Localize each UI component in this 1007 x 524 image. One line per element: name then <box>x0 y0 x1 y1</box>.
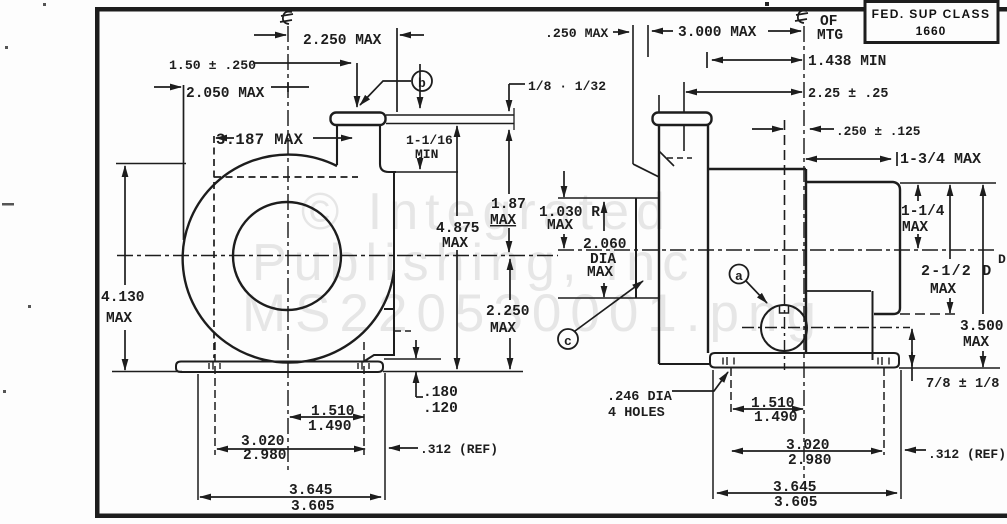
left view: centerline symbol <box>280 12 293 24</box>
left view dimension texts <box>101 33 606 515</box>
svg-text:3.020: 3.020 <box>786 438 830 454</box>
svg-text:.120: .120 <box>423 401 458 417</box>
dim 3.187 MAX: right arrow <box>313 137 352 139</box>
dim 1.030 R: upper down arrow <box>563 171 565 197</box>
left view: base top extension right <box>384 358 441 360</box>
left view: base hole mark right <box>358 363 369 370</box>
left view: outlet step to flat face <box>363 173 394 362</box>
svg-text:MAX: MAX <box>963 335 989 351</box>
svg-text:1.490: 1.490 <box>754 410 798 426</box>
svg-text:MAX: MAX <box>902 220 928 236</box>
svg-text:MTG: MTG <box>817 28 843 44</box>
drawing border bottom <box>95 514 1007 519</box>
right view: body left wall <box>658 125 660 364</box>
dim 7/8: vertical and arrows <box>911 329 913 340</box>
stray scan marks <box>2 2 769 393</box>
dim .312 left view arrow <box>389 447 418 449</box>
dim 1.510 right view <box>733 408 803 410</box>
left view: mounting base bar <box>176 362 383 373</box>
left view: base hole mark left <box>209 363 220 370</box>
dim 4.875: down arrow at base <box>456 250 458 369</box>
left view: inlet circle <box>233 202 341 310</box>
dim 2.250 MAX top: right arrow at face line <box>400 34 424 36</box>
dim 3.000 MAX arrows <box>652 30 673 32</box>
dim 1-3/4: arrows <box>806 158 891 160</box>
svg-text:FED. SUP CLASS: FED. SUP CLASS <box>872 7 991 21</box>
svg-text:MAX: MAX <box>490 213 516 229</box>
dim .250 MAX arrow <box>613 31 629 33</box>
left view: base end extension verticals <box>198 373 385 500</box>
right view: keyway notch <box>780 306 789 313</box>
right view: inlet cylinder face <box>635 198 637 298</box>
dim 1/8: lower up arrow <box>508 130 510 148</box>
svg-text:.180: .180 <box>423 385 458 401</box>
right view: inlet cylinder bottom edge with extension <box>558 297 659 299</box>
right view: duct inner dash <box>667 157 692 159</box>
dim 3.020 right view <box>732 450 882 452</box>
dim 2.250 right: up arrow below centerline <box>509 259 511 300</box>
balloon c <box>558 329 578 349</box>
svg-text:MAX: MAX <box>490 321 516 337</box>
svg-text:MAX: MAX <box>930 282 956 298</box>
right view: chamfer at inlet edge <box>633 164 659 177</box>
dim .180: lower up arrow and elbow <box>415 372 417 397</box>
right view: base hole mark right <box>878 357 889 365</box>
right view: extension verticals above duct <box>633 25 684 164</box>
dim 4.130: up arrow <box>124 166 126 285</box>
svg-text:1-1/16: 1-1/16 <box>406 133 453 148</box>
dim 3.187 MAX: left arrow at hidden line <box>216 137 234 139</box>
svg-text:2.980: 2.980 <box>243 448 287 464</box>
svg-text:3.000 MAX: 3.000 MAX <box>678 25 757 41</box>
dim 2.050 MAX: scroll edge extension vertical <box>183 85 185 240</box>
svg-text:2.250: 2.250 <box>486 304 530 320</box>
left view: duct flange capsule <box>331 113 386 126</box>
svg-text:MS220530001.png: MS220530001.png <box>242 284 825 343</box>
svg-text:3.605: 3.605 <box>291 499 335 515</box>
dim .250/.125: left arrow <box>752 128 783 130</box>
right view dimension texts <box>539 14 1006 511</box>
left view: scroll housing outer outline <box>183 155 394 363</box>
right view: duct right wall <box>707 125 709 353</box>
balloon b <box>412 71 432 91</box>
svg-text:© Integrated: © Integrated <box>301 183 672 241</box>
dim 2.050 MAX: arrow to scroll edge <box>154 86 181 88</box>
dim 3.645 left view <box>200 496 381 498</box>
left view: vertical centerline <box>287 26 289 472</box>
left view: hidden line horizontal <box>214 176 358 178</box>
dim 1/8 leader elbow <box>509 83 525 85</box>
right view: motor circle horizontal centerline <box>742 327 910 329</box>
dim 1.030 R: down arrow at centerline <box>563 234 565 248</box>
dim .246 leader <box>672 372 728 391</box>
svg-text:2.050 MAX: 2.050 MAX <box>186 86 265 102</box>
left view: duct step extension line <box>396 171 458 173</box>
right view: duct seam <box>683 126 685 151</box>
dim 2.250 right: down arrow at base <box>509 338 511 369</box>
right view: base bottom extension <box>899 367 1000 369</box>
svg-text:1.50 ± .250: 1.50 ± .250 <box>169 58 256 73</box>
right view: bracket vertical <box>872 291 874 360</box>
right view: bracket top edge <box>806 290 871 292</box>
left view: hole centerline extensions <box>215 342 364 455</box>
drawing border left <box>95 7 100 518</box>
balloon b leader <box>360 81 411 105</box>
left view: hidden line vertical <box>213 136 215 358</box>
left view: base bottom extension left <box>112 371 182 373</box>
right view: motor top extension <box>900 182 996 184</box>
dim 2.060: down arrow at cylinder bottom <box>603 283 605 297</box>
dim 1.50 leader line <box>253 62 351 64</box>
svg-text:MAX: MAX <box>106 311 132 327</box>
left view: flange top extension line <box>386 114 514 116</box>
dim 3.020 left view <box>217 448 365 450</box>
right view: body right face <box>805 169 807 353</box>
dim 3.645 right view <box>717 492 897 494</box>
dim 2.250 MAX top: left arrow to centerline <box>254 34 286 36</box>
svg-text:2.250 MAX: 2.250 MAX <box>303 33 382 49</box>
dim 4.875: up arrow at flange <box>456 126 458 216</box>
left view: base bottom extension right <box>383 371 523 373</box>
dim .180: upper down arrow <box>415 340 417 358</box>
svg-text:1.510: 1.510 <box>311 404 355 420</box>
dim 1.510 left view <box>290 416 364 418</box>
right view: horizontal centerline <box>558 249 995 251</box>
svg-text:4 HOLES: 4 HOLES <box>608 406 665 421</box>
svg-text:1.87: 1.87 <box>491 197 526 213</box>
svg-text:1/8 · 1/32: 1/8 · 1/32 <box>528 79 606 94</box>
svg-text:3.187 MAX: 3.187 MAX <box>216 131 304 149</box>
dim 1-3/4: end tick <box>896 152 898 166</box>
right view: small motor circle <box>761 305 807 351</box>
dim 1-1/16: lower down arrow <box>419 157 421 169</box>
dim 4.130: down arrow <box>124 330 126 370</box>
svg-text:1-3/4 MAX: 1-3/4 MAX <box>900 151 981 168</box>
dim 2-1/2 D: arrows <box>949 185 951 259</box>
svg-text:3.605: 3.605 <box>774 495 818 511</box>
right view: motor circle vertical centerline <box>784 294 786 370</box>
svg-text:.250 ± .125: .250 ± .125 <box>836 124 921 139</box>
dim 1.50 vertical with down arrow at flange <box>356 63 358 107</box>
left view: scroll top extension line <box>116 163 186 165</box>
svg-text:2.980: 2.980 <box>788 453 832 469</box>
right view: inlet cylinder top edge with extension <box>558 197 659 199</box>
svg-text:1.438 MIN: 1.438 MIN <box>808 54 886 70</box>
svg-text:1.490: 1.490 <box>308 419 352 435</box>
right view: motor bottom extension <box>900 313 960 315</box>
dim 1.87: down arrow at centerline <box>508 228 510 252</box>
dim 2.25: arrows <box>686 91 720 93</box>
svg-text:MAX: MAX <box>547 218 573 234</box>
left view: flange bottom extension line <box>386 123 514 125</box>
drawing border top <box>95 7 1007 12</box>
right view: base end extension verticals <box>713 370 901 499</box>
dim .312 right view arrow <box>905 449 926 451</box>
svg-text:7/8 ± 1/8: 7/8 ± 1/8 <box>926 377 999 392</box>
svg-text:D: D <box>998 252 1006 267</box>
svg-text:2.060: 2.060 <box>583 237 627 253</box>
balloon c leader <box>575 281 643 331</box>
dim .250/.125: right arrow <box>810 128 834 130</box>
svg-text:a: a <box>735 269 743 284</box>
dim 3.500: arrows <box>982 185 984 314</box>
dim 2.250 MAX top: face extension vertical <box>396 28 398 112</box>
dim 1.87: line below 1/8 arrow <box>508 148 510 194</box>
right view: centerline symbol <box>795 11 808 23</box>
balloon a leader <box>746 281 767 303</box>
svg-text:4.130: 4.130 <box>101 290 145 306</box>
svg-text:MIN: MIN <box>415 147 438 162</box>
right view: mounting vertical centerline <box>803 26 805 478</box>
left view: outlet duct walls <box>337 125 396 172</box>
svg-text:.250 MAX: .250 MAX <box>545 26 608 41</box>
right view: mounting base bar <box>710 353 899 368</box>
dim 1-1/16: upper down arrow <box>419 64 421 108</box>
right view: body bottom line <box>659 363 710 365</box>
dim 1.030 R: up arrow at cylinder top <box>603 202 605 231</box>
right view: hidden vertical through body <box>784 120 786 292</box>
dim 1.438 MIN: tick and arrows <box>706 52 708 68</box>
svg-text:c: c <box>564 334 572 349</box>
svg-text:b: b <box>418 76 426 91</box>
svg-text:.246 DIA: .246 DIA <box>607 390 673 405</box>
svg-text:.312 (REF): .312 (REF) <box>420 442 498 457</box>
svg-text:3.500: 3.500 <box>960 319 1004 335</box>
right view: hole centerline extensions <box>731 368 884 455</box>
svg-text:2-1/2 D: 2-1/2 D <box>921 263 992 280</box>
svg-text:MAX: MAX <box>587 265 613 281</box>
left view: hidden step dash <box>395 330 411 332</box>
svg-text:2.25 ± .25: 2.25 ± .25 <box>808 87 888 102</box>
left view: flange extension end tick <box>513 108 515 130</box>
right view: base hole mark left <box>723 357 734 365</box>
title block <box>865 2 998 43</box>
svg-text:MAX: MAX <box>442 236 468 252</box>
balloon a <box>730 265 749 284</box>
svg-text:1660: 1660 <box>916 24 947 38</box>
dim 1-1/4: arrows <box>917 185 919 201</box>
svg-text:4.875: 4.875 <box>436 221 480 237</box>
right view: shoulder diagonal <box>659 151 674 166</box>
right view: duct collar capsule <box>653 113 712 126</box>
left view: horizontal centerline <box>117 255 558 257</box>
dim 1/8: upper down arrow <box>508 84 510 111</box>
svg-text:3.645: 3.645 <box>773 480 817 496</box>
svg-text:1-1/4: 1-1/4 <box>901 204 945 220</box>
svg-text:3.645: 3.645 <box>289 483 333 499</box>
svg-text:.312 (REF): .312 (REF) <box>928 447 1006 462</box>
right view: motor outline <box>806 182 900 314</box>
right view: body top edge <box>708 168 806 170</box>
dim 2.050 MAX: right stub across centerline <box>271 83 309 93</box>
